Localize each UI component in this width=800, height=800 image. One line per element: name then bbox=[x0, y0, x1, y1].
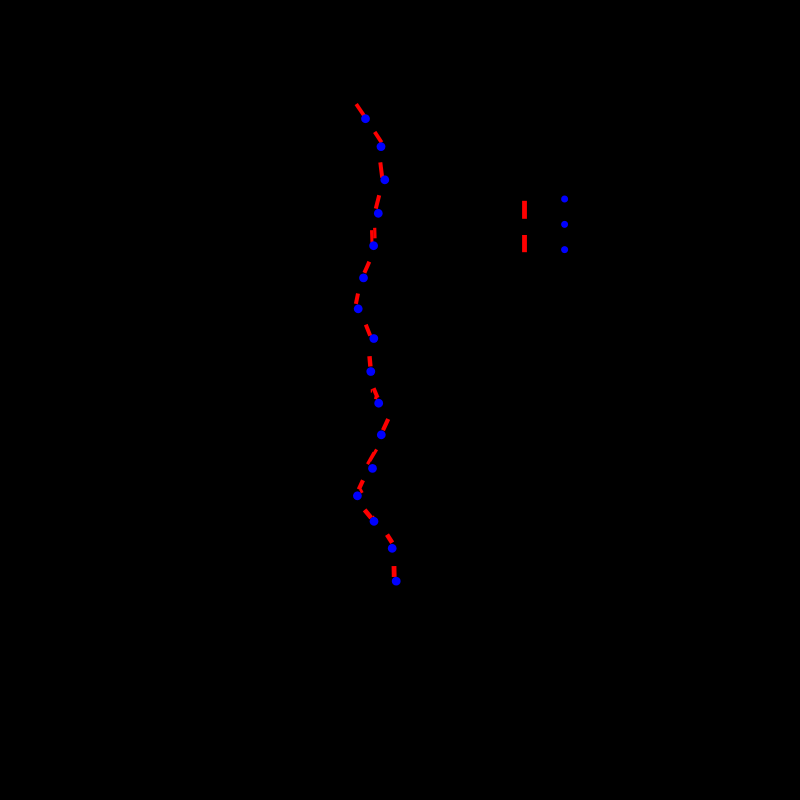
line dash S14 bbox=[365, 510, 372, 518]
data point D13 bbox=[353, 491, 362, 500]
line dash S1 bbox=[356, 104, 364, 116]
line dash S13 bbox=[359, 480, 363, 489]
data point D5 bbox=[369, 241, 378, 250]
data point D7 bbox=[354, 304, 363, 313]
data point D2 bbox=[377, 142, 386, 151]
line dash S9 bbox=[367, 356, 372, 366]
line dash S5a bbox=[373, 228, 376, 239]
line dash S8 bbox=[366, 325, 370, 336]
legend errorbar dash lower bbox=[522, 235, 527, 252]
line dash S4 bbox=[376, 195, 379, 208]
data point D9 bbox=[366, 367, 375, 376]
data point D4 bbox=[374, 209, 383, 218]
line dash S6 bbox=[364, 262, 369, 273]
legend marker 3 bbox=[561, 246, 568, 253]
line dash S3 bbox=[380, 162, 382, 177]
data point D8 bbox=[369, 334, 378, 343]
data point D6 bbox=[359, 274, 368, 283]
red speck near D14 bbox=[373, 516, 375, 518]
data point D1 bbox=[361, 114, 370, 123]
line dash S13b bbox=[360, 489, 362, 493]
data point D14 bbox=[370, 517, 379, 526]
line dash S10 bbox=[374, 388, 378, 398]
data point D10 bbox=[374, 399, 383, 408]
data point D3 bbox=[380, 175, 389, 184]
line dash S12a bbox=[370, 449, 377, 461]
legend errorbar dash upper bbox=[522, 201, 527, 219]
data point D11 bbox=[377, 430, 386, 439]
line dash S10b bbox=[370, 389, 372, 392]
line dash S10c bbox=[374, 396, 378, 399]
line dash S12b bbox=[368, 453, 375, 465]
line dash S15 bbox=[387, 535, 392, 543]
data point D12 bbox=[368, 464, 377, 473]
line dash S16 bbox=[392, 566, 397, 577]
data point D16 bbox=[392, 577, 401, 586]
line dash S7 bbox=[356, 294, 358, 304]
data point D15 bbox=[388, 544, 397, 553]
line dash S5b bbox=[370, 230, 374, 243]
line dash S11 bbox=[383, 419, 388, 430]
legend marker 1 bbox=[561, 196, 568, 203]
line dash S2 bbox=[375, 132, 382, 143]
legend marker 2 bbox=[561, 221, 568, 228]
